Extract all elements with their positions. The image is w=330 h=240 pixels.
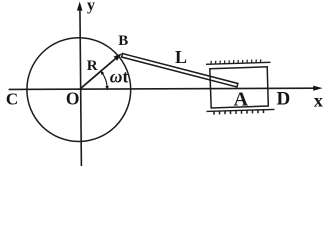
y-axis — [80, 6, 82, 166]
svg-text:ωt: ωt — [110, 66, 129, 86]
svg-text:x: x — [314, 91, 323, 111]
crank R arrowhead at B — [114, 53, 122, 61]
angle arc for wt — [103, 74, 107, 86]
y-axis arrowhead — [77, 2, 83, 11]
svg-text:O: O — [66, 89, 80, 109]
x-axis arrowhead — [313, 86, 322, 91]
angle arc upper arrowhead — [100, 70, 104, 75]
svg-text:L: L — [175, 47, 187, 67]
bottom guide line — [207, 109, 275, 111]
bottom guide hatching ticks — [214, 110, 264, 115]
crank R (radius vector) — [80, 59, 115, 89]
x-axis — [9, 88, 315, 89]
svg-text:D: D — [277, 88, 291, 109]
svg-text:B: B — [118, 33, 128, 49]
slider block — [210, 67, 268, 108]
svg-text:C: C — [6, 90, 18, 109]
circle (crank path) — [27, 38, 131, 142]
angle arc lower arrowhead — [105, 86, 108, 91]
svg-text:y: y — [87, 0, 95, 14]
top guide line — [206, 62, 271, 64]
svg-text:R: R — [87, 58, 98, 74]
top guide hatching ticks — [211, 59, 261, 64]
svg-text:A: A — [234, 88, 249, 110]
connecting rod L (B to A) — [122, 54, 238, 87]
